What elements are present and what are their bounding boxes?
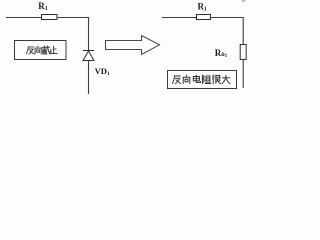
wire: left circuit top horizontal (right of R1) and right vertical down to diode bbox=[57, 18, 89, 51]
resistor R1 (right) bbox=[197, 15, 211, 20]
svg-text:R1: R1 bbox=[198, 2, 208, 13]
svg-text:VD1: VD1 bbox=[95, 66, 110, 77]
arrow (block arrow pointing right) bbox=[106, 36, 160, 55]
text 反向截止 bbox=[26, 46, 57, 54]
wire: below diode bbox=[88, 61, 90, 95]
resistor RD (vertical, reverse resistance) bbox=[240, 45, 246, 60]
wire: right circuit top horizontal (left of R1) bbox=[162, 17, 197, 19]
wire: right circuit top horizontal (right of R1) and corner down bbox=[211, 18, 244, 45]
stray mark (cropped ink at top edge, right) bbox=[242, 0, 246, 2]
annotation box 反向电阻极大 bbox=[168, 71, 237, 89]
diode VD1 bbox=[83, 51, 94, 61]
annotation box 反向截止 bbox=[15, 41, 67, 60]
svg-text:Ro1: Ro1 bbox=[215, 48, 228, 59]
svg-text:R1: R1 bbox=[38, 1, 48, 12]
text 反向电阻极大 bbox=[172, 75, 230, 84]
wire: left circuit top horizontal (left of R1) bbox=[6, 17, 42, 19]
wire: below resistor RD bbox=[242, 60, 244, 89]
resistor R1 (left) bbox=[42, 15, 58, 20]
